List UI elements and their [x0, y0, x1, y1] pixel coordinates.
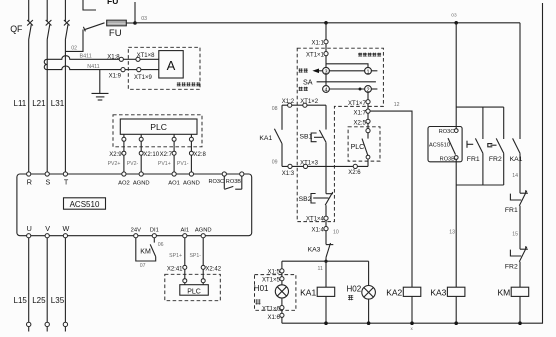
terminal DI1 [150, 227, 159, 237]
wire phase L3 [64, 40, 66, 174]
svg-text:A: A [167, 58, 176, 73]
ground [92, 93, 109, 100]
terminal X1:9 [109, 68, 125, 80]
svg-text:14: 14 [512, 173, 518, 179]
svg-text:RO3C: RO3C [439, 129, 455, 135]
wire X2:5 to PLC run contact [367, 123, 369, 128]
svg-text:SB1: SB1 [300, 134, 313, 141]
wire B411 [47, 54, 119, 60]
svg-text:KM: KM [140, 249, 151, 256]
wire KM coil to rail [519, 296, 521, 323]
svg-text:X2:42: X2:42 [205, 267, 221, 273]
terminal on PLC input 1 [183, 279, 187, 283]
svg-text:PV2-: PV2- [127, 161, 139, 167]
wire KA1 coil to rail [325, 296, 327, 323]
terminal X1:4 [312, 227, 329, 234]
terminal L25 [32, 296, 49, 332]
terminal XT1x3 [300, 160, 319, 168]
wire down to X1:1 [325, 23, 327, 40]
terminal L35 [51, 296, 68, 332]
PLC (analog in) [180, 285, 209, 296]
wire X2:41 to PLC [184, 269, 186, 278]
svg-text:T: T [64, 177, 69, 186]
svg-text:XT1×2: XT1×2 [300, 99, 319, 105]
svg-text:KA1: KA1 [259, 135, 272, 142]
terminal L15 [14, 296, 31, 332]
terminal X2:7 [160, 151, 176, 158]
wire contact 2 down [367, 92, 369, 99]
svg-text:X2:9: X2:9 [109, 152, 122, 158]
circuit breaker QF (3 poles) [10, 0, 69, 40]
svg-text:X1:9: X1:9 [109, 74, 122, 80]
thermal relay contact FR2 (NO) [488, 138, 504, 163]
wire FR2 to KM coil [519, 262, 521, 288]
terminal circle under PLC 1 [122, 137, 126, 141]
svg-text:X1:1: X1:1 [312, 40, 325, 46]
SA contact terminal 2 [365, 86, 372, 94]
ammeter A [159, 51, 183, 78]
wire output L15 [28, 238, 30, 322]
wire RO3B down (13) [449, 159, 456, 287]
wire bottom neutral rail [282, 3, 543, 323]
junction KA3 branch [454, 321, 458, 325]
svg-text:12: 12 [394, 102, 400, 108]
terminal XT1x4 [306, 216, 328, 223]
junction H02 branch [367, 321, 371, 325]
svg-text:X2:8: X2:8 [194, 152, 207, 158]
terminal X1:8 [107, 54, 123, 61]
svg-text:SP1+: SP1+ [169, 253, 182, 259]
pushbutton SB2 (stop, NC) [299, 166, 333, 216]
svg-text:L21: L21 [32, 99, 46, 108]
thermal relay contact FR1 (NO) [467, 138, 483, 163]
wire branch to contact 1 [326, 64, 368, 68]
terminal XT1x9 [134, 68, 153, 81]
svg-text:N411: N411 [87, 64, 100, 70]
contactor coil KM [497, 287, 528, 297]
svg-text:XT1×7: XT1×7 [348, 101, 367, 107]
svg-text:4: 4 [324, 88, 327, 94]
PLC analog dashed box [113, 115, 202, 147]
svg-text:XT1×5: XT1×5 [262, 278, 281, 284]
svg-text:S: S [46, 177, 51, 186]
svg-text:06: 06 [158, 242, 164, 248]
wire 11 node [282, 260, 369, 272]
wire bottom rail of FR branch [456, 184, 504, 186]
wire X1:1 to XT1x1 [325, 44, 327, 52]
terminal RO3C [208, 172, 226, 185]
svg-text:PLC: PLC [150, 122, 167, 132]
terminal X2:41 [167, 265, 187, 272]
svg-text:KA2: KA2 [386, 287, 402, 297]
svg-text:X2:7: X2:7 [160, 152, 173, 158]
PLC analog-in dashed box [165, 274, 221, 300]
wire FR2 drop [503, 107, 505, 139]
svg-text:1: 1 [366, 69, 369, 75]
svg-text:KA1: KA1 [510, 156, 523, 163]
terminal AGND [195, 227, 212, 237]
relay coil KA1 [300, 287, 335, 297]
terminal X2:10 [139, 151, 160, 158]
svg-text:X2:6: X2:6 [348, 170, 361, 176]
terminal circle under PLC 4 [189, 137, 193, 141]
terminal XT1x1 [306, 52, 328, 59]
terminal XT1x5 [262, 277, 284, 284]
terminal circle under PLC 3 [172, 137, 176, 141]
junction KA1 branch [324, 321, 328, 325]
terminal XT1x2 [300, 99, 319, 107]
terminal on PLC input 2 [201, 279, 205, 283]
terminal RO3B [226, 172, 244, 185]
junction KM branch [518, 321, 522, 325]
label auto [299, 87, 308, 91]
wire phase L1 [28, 40, 30, 174]
relay contact KA3 (NC) [308, 243, 334, 261]
terminal X1:1 [312, 40, 329, 47]
terminal X2:42 [201, 265, 222, 272]
svg-text:PV2+: PV2+ [108, 161, 121, 167]
wire phase L2 [46, 40, 48, 174]
terminal AO1 [168, 172, 180, 186]
terminal X1:6 [267, 313, 284, 321]
wire KA2 coil to rail [411, 296, 413, 323]
wire FR1 drop [482, 107, 484, 139]
svg-text:L35: L35 [51, 296, 65, 305]
wire 15 [512, 206, 520, 250]
terminal X2:5 [354, 119, 371, 126]
svg-text:KA3: KA3 [308, 246, 321, 253]
relay contact KA1 (latch, NO) [259, 105, 282, 166]
svg-text:FR1: FR1 [467, 156, 480, 163]
svg-text:FU: FU [109, 28, 122, 39]
pushbutton SB1 (start, NO) [300, 105, 327, 166]
transformer winding loops on L2 [44, 59, 47, 69]
wire to ground [99, 70, 101, 94]
terminal AGND [183, 172, 200, 186]
PLC run contact (NO) [351, 133, 368, 156]
fuse FU [107, 20, 127, 39]
relay coil KA2 [386, 287, 421, 297]
stub right of contact 2 [371, 88, 377, 90]
terminal 24V [131, 227, 141, 237]
svg-text:RO3C: RO3C [208, 179, 224, 185]
svg-text:X1:5: X1:5 [267, 270, 280, 276]
wire 03 top rail [135, 22, 520, 24]
node 03 junction above X1:1 [324, 21, 328, 25]
wire FR2 bottom [503, 153, 505, 185]
svg-text:XT1×9: XT1×9 [134, 75, 153, 81]
terminal U [27, 224, 32, 238]
node 03 junction [133, 16, 147, 25]
SA contact terminal 1 [365, 67, 372, 75]
terminal on PLC contact bottom [366, 155, 370, 159]
svg-text:03: 03 [451, 13, 457, 19]
svg-text:PV1+: PV1+ [158, 161, 171, 167]
wire 10 [326, 230, 339, 245]
relay contact blade RO3C-RO3B [448, 138, 456, 155]
SA row 3-1 contact line [329, 70, 364, 72]
svg-text:QF: QF [10, 24, 23, 34]
svg-text:X1:4: X1:4 [312, 228, 325, 234]
relay contact KA1 (NO, right) [510, 138, 523, 163]
wire XT1x4 to X1:4 [325, 220, 327, 226]
svg-text:X2:10: X2:10 [143, 152, 159, 158]
svg-text:03: 03 [141, 16, 147, 22]
svg-text:AGND: AGND [183, 180, 200, 186]
svg-text:XT1×6: XT1×6 [262, 307, 281, 313]
switch SA label and line [303, 78, 376, 87]
svg-text:11: 11 [318, 266, 323, 272]
wire N411 [47, 64, 121, 70]
drive relay box ACS510 [428, 127, 462, 163]
junction dot before contact 2 [359, 88, 362, 91]
lamp H01 dashed box [255, 275, 296, 311]
terminal X1:3 [282, 164, 295, 177]
wire PLC analog 1 down to drive [123, 134, 125, 172]
svg-text:AGND: AGND [195, 227, 212, 233]
wire 03 corner down right column [519, 23, 521, 139]
svg-text:15: 15 [512, 231, 518, 237]
svg-text:SP1-: SP1- [189, 253, 201, 259]
svg-text:FR1: FR1 [505, 207, 518, 214]
wire PLC analog 3 down to drive [173, 134, 175, 172]
wire KA3 coil to rail [455, 296, 457, 323]
svg-text:XT1×3: XT1×3 [300, 160, 319, 166]
svg-text:AO1: AO1 [168, 180, 180, 186]
terminal T [63, 172, 69, 187]
wire X1:6 to rail [281, 317, 283, 323]
terminal RO3B (relay) [454, 156, 458, 160]
svg-text:FR2: FR2 [489, 156, 502, 163]
SA contact terminal 4 [323, 86, 330, 94]
terminal circle under PLC 2 [139, 137, 143, 141]
relay contact RO3C-RO3B [224, 176, 242, 189]
svg-text:X1:6: X1:6 [267, 315, 280, 321]
svg-text:H01: H01 [254, 284, 269, 293]
terminal X2:8 [189, 151, 206, 158]
wire tap 02 from L3 to disconnect [65, 30, 83, 52]
terminal RO3C (relay) [454, 129, 458, 133]
svg-text:XT1×4: XT1×4 [306, 217, 325, 223]
terminal XT1x7 [348, 100, 370, 107]
svg-text:XT1×1: XT1×1 [306, 52, 325, 58]
wire node to KA1 coil [325, 261, 327, 287]
svg-text:PV1-: PV1- [177, 161, 189, 167]
SA row 4-2 contact line [329, 88, 364, 90]
PLC run-contact dashed box [348, 127, 380, 161]
svg-text:W: W [63, 224, 70, 233]
wire fuse to node 03 [126, 22, 135, 24]
contactor aux contact KM (24V-DI1) [136, 238, 164, 269]
drive ACS510 main box [17, 174, 252, 236]
thermal overload contact FR1 (NC) [505, 190, 528, 214]
svg-text:KA3: KA3 [430, 287, 446, 297]
lamp H01 (green) [254, 284, 289, 304]
svg-text:X2:41: X2:41 [167, 267, 183, 273]
svg-text:DI1: DI1 [150, 227, 159, 233]
ammeter assembly dashed box [128, 47, 200, 89]
wire output L25 [46, 238, 48, 322]
svg-text:AO2: AO2 [118, 180, 130, 186]
wire down to RO3C [455, 23, 457, 129]
svg-text:PLC: PLC [351, 144, 365, 151]
node 03 junction right [451, 13, 458, 25]
wire XT1x9 to meter [141, 69, 159, 71]
terminal AI1 [180, 227, 189, 237]
terminal X2:9 [109, 151, 126, 158]
wire contact 3 to 4 [325, 74, 327, 85]
svg-text:SA: SA [303, 78, 313, 87]
wire 14 [512, 153, 520, 193]
terminal AGND [133, 172, 150, 186]
svg-text:KM: KM [497, 287, 510, 297]
stub right of contact 1 [371, 70, 377, 72]
disconnect switch blade [83, 23, 104, 32]
wire FR1 bottom [482, 153, 484, 185]
svg-text:ACS510: ACS510 [429, 142, 450, 148]
svg-text:RO3B: RO3B [440, 156, 456, 162]
wire XT1x1 down to contact 3 [325, 56, 327, 68]
terminal S [45, 172, 50, 187]
svg-text:AGND: AGND [133, 180, 150, 186]
svg-text:RO3B: RO3B [226, 179, 242, 185]
wire PLC analog 4 down to drive [190, 134, 192, 172]
svg-text:24V: 24V [131, 227, 141, 233]
wire XT1x8 to meter [140, 58, 159, 60]
svg-text:08: 08 [272, 106, 278, 112]
wire to H01 branch [281, 261, 283, 269]
wire from above into node 03 [134, 2, 136, 23]
terminal V [45, 224, 50, 238]
svg-text:X1:2: X1:2 [282, 99, 295, 105]
junction KA2 branch [410, 321, 414, 325]
svg-text:X1:7: X1:7 [354, 110, 367, 116]
svg-text:U: U [27, 224, 32, 233]
terminal X2:6 [348, 164, 361, 176]
wire output L35 [64, 238, 66, 322]
svg-text:X2:5: X2:5 [354, 121, 367, 127]
svg-text:AI1: AI1 [180, 227, 189, 233]
svg-text:L25: L25 [32, 296, 46, 305]
terminal AO2 [118, 172, 130, 186]
wire H02 branch [368, 261, 370, 285]
wire 08 [272, 105, 326, 112]
wire SP1+ [169, 238, 185, 266]
svg-text:X1:8: X1:8 [107, 54, 120, 60]
terminal X1:5 [267, 269, 284, 276]
wire SP1- [189, 238, 203, 266]
svg-text:R: R [27, 177, 32, 186]
terminal W [63, 224, 70, 238]
wire top rail of FR branch [456, 106, 504, 108]
SA contact terminal 3 [323, 67, 330, 75]
svg-text:B411: B411 [80, 54, 92, 60]
svg-text:ACS510: ACS510 [70, 200, 100, 209]
PLC (analog out) [120, 119, 197, 134]
svg-text:X1:3: X1:3 [282, 171, 295, 177]
svg-text:XT1×8: XT1×8 [137, 53, 156, 59]
svg-text:KA1: KA1 [300, 287, 316, 297]
terminal X1:7 [354, 109, 371, 116]
wire H02 to rail [368, 299, 370, 323]
svg-text:13: 13 [449, 229, 455, 235]
terminal XT1x6 [262, 306, 284, 313]
wire X1:8 to XT1x8 [123, 58, 135, 60]
wire XT1x7 to X1:7 [367, 104, 369, 109]
terminal XT1x8 [136, 53, 155, 61]
thermal overload contact FR2 (NC) [505, 246, 528, 271]
svg-text:PLC: PLC [187, 288, 201, 295]
wire PLC contact to wire 09 [367, 159, 369, 166]
label manual [299, 68, 308, 72]
svg-text:L15: L15 [14, 296, 28, 305]
wire 09 [272, 160, 368, 167]
wire X1:9 to XT1x9 [125, 69, 137, 71]
wire 12 to KA2 branch [370, 102, 412, 287]
svg-text:FU: FU [107, 0, 118, 6]
svg-text:H02: H02 [347, 284, 362, 293]
label box ACS510 [64, 198, 106, 209]
wire X2:42 to PLC [202, 269, 204, 278]
svg-text:SB2: SB2 [299, 196, 312, 203]
terminal on PLC contact top [366, 129, 370, 133]
svg-text:V: V [45, 224, 50, 233]
position arrow (manual) [312, 69, 322, 74]
relay coil KA3 [430, 287, 465, 297]
svg-text:09: 09 [272, 160, 278, 166]
wire PLC analog 2 down to drive [140, 134, 142, 172]
selector switch SA dashed enclosure [297, 48, 383, 221]
lamp H02 (red) [347, 284, 376, 300]
svg-text:FR2: FR2 [505, 264, 518, 271]
svg-text:02: 02 [71, 45, 77, 51]
svg-text:07: 07 [140, 263, 146, 269]
wire X1:7 to X2:5 [367, 113, 369, 119]
cropped component stub at top [83, 0, 118, 10]
terminal R [27, 172, 32, 187]
svg-text:L11: L11 [14, 99, 27, 108]
svg-text:L31: L31 [51, 99, 65, 108]
svg-text:10: 10 [333, 230, 339, 236]
terminal X1:2 [282, 99, 295, 107]
